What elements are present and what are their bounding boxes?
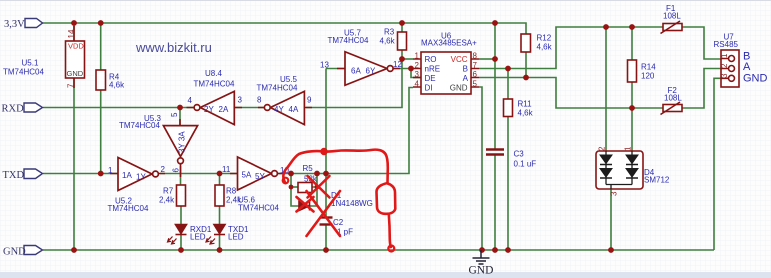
svg-text:TM74HC04: TM74HC04	[194, 80, 235, 89]
svg-text:4,6k: 4,6k	[518, 109, 534, 118]
svg-text:R8: R8	[226, 187, 237, 196]
svg-text:SM712: SM712	[644, 176, 670, 185]
svg-text:nRE: nRE	[425, 65, 441, 74]
svg-text:13: 13	[320, 61, 329, 70]
svg-text:TM74HC04: TM74HC04	[257, 84, 298, 93]
svg-text:TXD: TXD	[3, 170, 25, 181]
svg-text:TM74HC04: TM74HC04	[119, 121, 160, 130]
svg-text:A: A	[743, 61, 751, 73]
svg-text:GND: GND	[3, 247, 26, 258]
svg-text:4: 4	[188, 96, 193, 105]
svg-text:3: 3	[415, 70, 420, 79]
svg-text:8: 8	[473, 52, 478, 61]
svg-text:GND: GND	[469, 265, 494, 277]
svg-text:0.1 uF: 0.1 uF	[514, 160, 537, 169]
svg-text:14: 14	[67, 29, 76, 38]
svg-text:1: 1	[624, 146, 633, 151]
svg-text:VDD: VDD	[68, 42, 84, 51]
svg-text:DI: DI	[425, 84, 433, 93]
svg-text:120: 120	[641, 72, 655, 81]
svg-text:3: 3	[610, 191, 619, 196]
svg-text:C2: C2	[333, 218, 344, 227]
svg-text:5: 5	[170, 112, 179, 117]
svg-text:R7: R7	[163, 187, 174, 196]
svg-text:11: 11	[222, 165, 231, 174]
svg-text:4,6k: 4,6k	[109, 81, 125, 90]
svg-text:GND: GND	[743, 73, 768, 85]
svg-text:2,4k: 2,4k	[226, 196, 242, 205]
svg-text:5A: 5A	[242, 171, 252, 180]
svg-text:2: 2	[598, 146, 607, 151]
svg-text:TM74HC04: TM74HC04	[108, 204, 149, 213]
svg-text:2,4k: 2,4k	[159, 196, 175, 205]
svg-text:R3: R3	[384, 28, 395, 37]
svg-text:A: A	[463, 74, 469, 83]
svg-text:RS485: RS485	[714, 40, 739, 49]
svg-text:R11: R11	[518, 100, 533, 109]
svg-text:R12: R12	[537, 34, 552, 43]
svg-text:5: 5	[473, 80, 478, 89]
svg-text:GND: GND	[450, 84, 468, 93]
svg-text:U5.1: U5.1	[22, 59, 39, 68]
svg-text:2A: 2A	[219, 105, 229, 114]
svg-text:108L: 108L	[664, 94, 682, 103]
svg-text:GND: GND	[67, 69, 84, 78]
svg-text:MAX3485ESA+: MAX3485ESA+	[421, 39, 477, 48]
svg-text:4,6k: 4,6k	[380, 37, 396, 46]
svg-text:6: 6	[473, 70, 478, 79]
svg-text:3Y 3A: 3Y 3A	[178, 131, 187, 153]
svg-text:1A: 1A	[122, 171, 132, 180]
svg-text:www.bizkit.ru: www.bizkit.ru	[135, 40, 212, 55]
svg-text:4Y: 4Y	[274, 105, 284, 114]
svg-text:6: 6	[172, 168, 181, 173]
svg-text:C3: C3	[514, 150, 525, 159]
svg-text:2Y: 2Y	[204, 105, 214, 114]
svg-text:LED: LED	[190, 233, 206, 242]
svg-text:12: 12	[393, 60, 402, 69]
svg-text:DE: DE	[425, 74, 436, 83]
svg-text:R14: R14	[641, 63, 656, 72]
svg-text:1Y: 1Y	[136, 173, 146, 182]
svg-text:TM74HC04: TM74HC04	[238, 204, 279, 213]
svg-text:B: B	[463, 65, 468, 74]
svg-text:TM74HC04: TM74HC04	[328, 36, 369, 45]
svg-text:4,6k: 4,6k	[537, 43, 553, 52]
svg-text:7: 7	[473, 61, 478, 70]
svg-text:2: 2	[415, 61, 420, 70]
svg-text:3: 3	[720, 73, 729, 78]
svg-text:8: 8	[257, 96, 262, 105]
svg-text:2: 2	[161, 165, 166, 174]
svg-text:4A: 4A	[289, 105, 299, 114]
svg-text:6Y: 6Y	[366, 67, 376, 76]
svg-text:3,3V: 3,3V	[4, 19, 25, 30]
svg-text:RXD: RXD	[2, 104, 25, 115]
svg-text:1N4148WG: 1N4148WG	[331, 199, 373, 208]
svg-text:5Y: 5Y	[255, 172, 265, 181]
svg-text:6A: 6A	[351, 67, 361, 76]
svg-text:1: 1	[415, 52, 420, 61]
svg-text:VCC: VCC	[451, 55, 468, 64]
svg-text:4: 4	[415, 80, 420, 89]
svg-text:TM74HC04: TM74HC04	[3, 68, 44, 77]
svg-text:7: 7	[67, 83, 76, 88]
svg-text:108L: 108L	[663, 12, 681, 21]
svg-text:LED: LED	[228, 233, 244, 242]
svg-text:1: 1	[108, 166, 113, 175]
svg-text:9: 9	[307, 96, 312, 105]
svg-text:R5: R5	[303, 164, 314, 173]
svg-text:RO: RO	[425, 55, 437, 64]
svg-text:U8.4: U8.4	[205, 69, 222, 78]
svg-text:1: 1	[720, 53, 729, 58]
svg-text:3: 3	[238, 96, 243, 105]
svg-text:2: 2	[720, 63, 729, 68]
